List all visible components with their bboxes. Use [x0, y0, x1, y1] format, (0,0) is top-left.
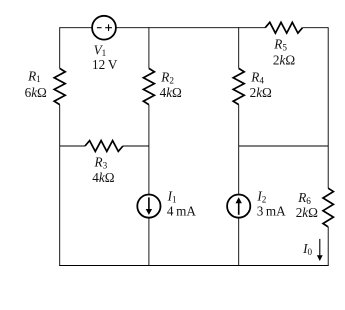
wire: second vertical, I1 to bottom [148, 218, 150, 266]
current source I2 [227, 195, 250, 218]
svg-text:4 mA: 4 mA [167, 204, 196, 219]
wire: top net, left segment (top-left corner to V1) [60, 27, 92, 29]
resistor R6 [323, 188, 333, 227]
svg-text:6kΩ: 6kΩ [25, 85, 47, 100]
svg-text:I2: I2 [256, 189, 266, 205]
svg-text:R1: R1 [27, 68, 41, 84]
svg-text:R4: R4 [250, 70, 264, 86]
wire: second vertical, top to R2 [148, 27, 150, 68]
I2 arrow (upward) [238, 203, 240, 215]
svg-text:R2: R2 [160, 70, 174, 86]
svg-text:I0: I0 [302, 241, 312, 257]
wire: right vertical, R6 to bottom-right corner [327, 227, 329, 266]
svg-text:12 V: 12 V [92, 57, 118, 72]
wire: top net, R5 right terminal to top-right corner [303, 27, 329, 29]
wire: third vertical, R4 to I2 [238, 105, 240, 195]
svg-text:R6: R6 [297, 190, 311, 206]
wire: third vertical, I2 to bottom [238, 218, 240, 266]
svg-text:3 mA: 3 mA [257, 204, 286, 219]
svg-text:4kΩ: 4kΩ [160, 85, 182, 100]
wire: left vertical, top corner to R1 [59, 27, 61, 68]
svg-text:I1: I1 [167, 189, 177, 205]
svg-text:2kΩ: 2kΩ [273, 53, 295, 68]
wire: left vertical, R1 to bottom-left corner [59, 105, 61, 266]
wire: bottom net [59, 265, 328, 267]
wire: right vertical, top corner to R6 [327, 27, 329, 188]
svg-text:R3: R3 [94, 155, 108, 171]
V1 minus sign [97, 27, 102, 29]
wire: middle net right, third vertical to right wire [239, 145, 329, 147]
wire: third vertical, top to R4 [238, 27, 240, 68]
resistor R3 [85, 141, 123, 152]
current I0 arrow (downward) [319, 239, 321, 256]
I1 arrow (downward) [148, 197, 150, 209]
svg-text:V1: V1 [94, 42, 107, 58]
wire: second vertical, R2 to I1 [148, 105, 150, 195]
wire: top net, V1 to node at x=238.7 [116, 27, 239, 29]
current source I1 [137, 195, 160, 218]
voltage source V1 [92, 16, 116, 40]
resistor R5 [265, 22, 302, 33]
V1 plus sign [105, 27, 112, 29]
wire: top net, node to R5 left terminal [239, 27, 266, 29]
wire: R3 right terminal to second vertical [123, 145, 149, 147]
svg-text:2kΩ: 2kΩ [296, 205, 318, 220]
wire: middle net left, R3 row from left wire to R3 [60, 145, 85, 147]
svg-text:4kΩ: 4kΩ [92, 170, 114, 185]
resistor R1 [54, 68, 65, 104]
svg-text:R5: R5 [273, 37, 287, 53]
resistor R4 [233, 68, 244, 104]
svg-text:2kΩ: 2kΩ [250, 85, 272, 100]
resistor R2 [143, 68, 154, 104]
